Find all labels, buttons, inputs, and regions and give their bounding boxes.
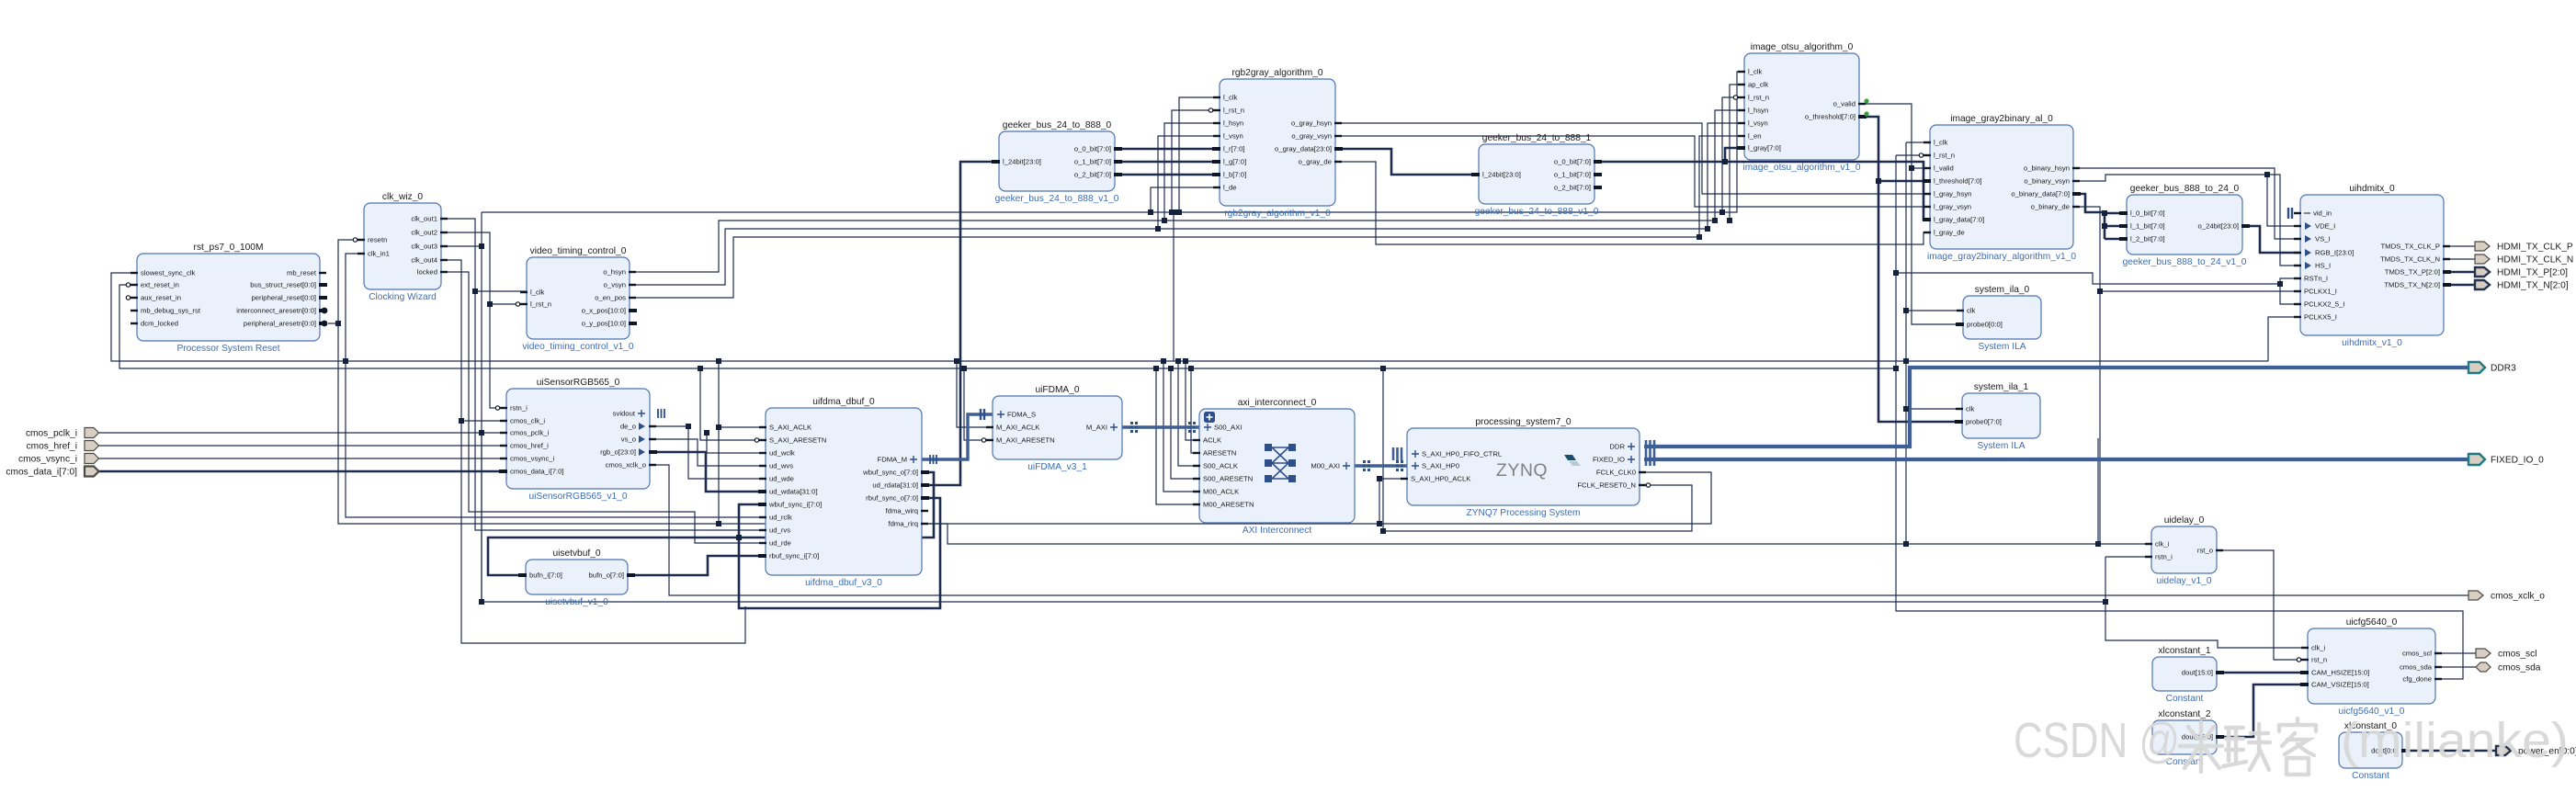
block uisetvbuf_0: [518, 549, 635, 607]
wire: RSTn/PCLKX2_5 net y=309: [1896, 273, 2280, 284]
svg-text:S_AXI_HP0_ACLK: S_AXI_HP0_ACLK: [1411, 475, 1471, 483]
wire: bufn_o to rbuf_sync_i: [628, 556, 766, 575]
svg-text:S_AXI_HP0_FIFO_CTRL: S_AXI_HP0_FIFO_CTRL: [1422, 450, 1503, 458]
svg-text:l_de: l_de: [1223, 184, 1237, 192]
wire: axi M00_ARESETN riser: [1156, 368, 1199, 504]
svg-text:l_clk: l_clk: [530, 289, 545, 297]
wire: PCLKX1 line: [2100, 290, 2300, 292]
external output port HDMI_TX_CLK_P: [2475, 242, 2490, 251]
svg-text:AXI Interconnect: AXI Interconnect: [1243, 526, 1311, 536]
svg-text:l_threshold[7:0]: l_threshold[7:0]: [1934, 177, 1982, 186]
svg-text:DDR3: DDR3: [2491, 364, 2516, 374]
svg-text:l_rst_n: l_rst_n: [1223, 107, 1244, 115]
wire: o_binary_vsyn to HS_I: [2072, 175, 2300, 266]
svg-text:axi_interconnect_0: axi_interconnect_0: [1238, 398, 1317, 408]
wire: geeker0 o_2_bit to l_b: [1115, 174, 1220, 176]
svg-text:clk_i: clk_i: [2155, 540, 2170, 549]
svg-text:rbuf_sync_i[7:0]: rbuf_sync_i[7:0]: [769, 552, 819, 560]
wire: geeker0 o_0_bit to l_r: [1115, 148, 1220, 151]
wire: peripheral_aresetn to resetn: [328, 240, 364, 323]
svg-text:dcm_locked: dcm_locked: [141, 320, 178, 328]
wire: CAM_VSIZE bus: [2217, 685, 2308, 737]
svg-text:peripheral_aresetn[0:0]: peripheral_aresetn[0:0]: [244, 320, 316, 328]
svg-text:S00_ARESETN: S00_ARESETN: [1203, 475, 1253, 483]
svg-text:mb_reset: mb_reset: [287, 269, 317, 277]
wire: CAM_HSIZE bus: [2217, 672, 2308, 674]
svg-text:cmos_sda: cmos_sda: [2400, 663, 2433, 672]
svg-text:l_vsyn: l_vsyn: [1223, 132, 1243, 141]
svg-text:System ILA: System ILA: [1978, 342, 2026, 352]
svg-text:cfg_done: cfg_done: [2402, 675, 2432, 684]
svg-text:geeker_bus_888_to_24_0: geeker_bus_888_to_24_0: [2130, 184, 2240, 194]
svg-text:o_x_pos[10:0]: o_x_pos[10:0]: [582, 307, 626, 315]
wire: cmos_xclk_o net y=648: [650, 465, 2468, 595]
svg-text:ZYNQ7 Processing System: ZYNQ7 Processing System: [1467, 508, 1581, 518]
svg-text:l_gray_data[7:0]: l_gray_data[7:0]: [1934, 216, 1984, 224]
svg-text:processing_system7_0: processing_system7_0: [1475, 417, 1572, 427]
wire: clk_out2 to l_rst_n and rstn_i: [441, 232, 527, 304]
wire: PCLKX5 from clock trunk: [2268, 317, 2300, 361]
external output port HDMI_TX_P[2:0]: [2475, 267, 2490, 277]
wire: right reset vertical x=2063 down to cfg_done return: [1896, 154, 1930, 156]
external output port power_en[0:0]: [2496, 746, 2511, 755]
svg-text:uifdma_dbuf_v3_0: uifdma_dbuf_v3_0: [805, 578, 882, 588]
svg-text:ap_clk: ap_clk: [1748, 81, 1768, 89]
wire: o_gray_hsyn to l_gray_hsyn: [1335, 123, 1930, 194]
svg-text:o_1_bit[7:0]: o_1_bit[7:0]: [1554, 171, 1591, 179]
svg-text:slowest_sync_clk: slowest_sync_clk: [141, 269, 196, 277]
svg-text:ext_reset_in: ext_reset_in: [141, 281, 179, 289]
svg-text:ud_wclk: ud_wclk: [769, 449, 795, 458]
svg-text:o_gray_hsyn: o_gray_hsyn: [1291, 119, 1332, 128]
svg-text:aux_reset_in: aux_reset_in: [141, 294, 181, 302]
svg-text:o_valid: o_valid: [1833, 100, 1855, 108]
svg-text:o_binary_hsyn: o_binary_hsyn: [2024, 164, 2070, 173]
svg-text:clk_in1: clk_in1: [368, 250, 390, 258]
svg-text:Constant: Constant: [2352, 771, 2389, 781]
svg-text:o_2_bit[7:0]: o_2_bit[7:0]: [1554, 184, 1591, 192]
external output port HDMI_TX_CLK_N: [2475, 255, 2490, 264]
wire: DDR interface bus: [1644, 368, 2468, 447]
svg-text:image_gray2binary_al_0: image_gray2binary_al_0: [1950, 114, 2053, 124]
svg-text:l_valid: l_valid: [1934, 164, 1954, 173]
svg-text:l_2_bit[7:0]: l_2_bit[7:0]: [2130, 235, 2165, 243]
svg-text:M00_AXI: M00_AXI: [1311, 462, 1340, 470]
svg-text:PCLKX2_5_I: PCLKX2_5_I: [2304, 300, 2344, 309]
block geeker_bus_24_to_888_1: [1471, 133, 1602, 217]
svg-text:dout[15:0]: dout[15:0]: [2182, 669, 2213, 677]
block uicfg5640_0: [2297, 617, 2442, 717]
svg-text:resetn: resetn: [368, 236, 387, 244]
svg-text:interconnect_aresetn[0:0]: interconnect_aresetn[0:0]: [236, 307, 316, 315]
wire: rgb2gray l_vsyn riser: [1158, 136, 1220, 229]
svg-text:ud_rvs: ud_rvs: [769, 526, 790, 535]
wire: otsu o_threshold bus to l_threshold and ila1 probe: [1859, 117, 1962, 422]
svg-text:(milianke): (milianke): [2341, 713, 2569, 768]
svg-text:o_gray_vsyn: o_gray_vsyn: [1291, 132, 1332, 141]
external input port cmos_pclk_i: [85, 428, 99, 438]
external output port cmos_scl: [2476, 649, 2491, 658]
svg-text:system_ila_1: system_ila_1: [1974, 382, 2029, 392]
svg-text:locked: locked: [417, 268, 437, 277]
wire: video timing o_vsyn net: [630, 123, 1744, 285]
svg-text:l_rst_n: l_rst_n: [1748, 94, 1769, 102]
svg-text:clk_wiz_0: clk_wiz_0: [382, 192, 423, 202]
svg-text:o_vsyn: o_vsyn: [604, 281, 626, 289]
wire: cmos_pclk_i net: [97, 432, 506, 434]
wire: cfg_done out: [2435, 678, 2444, 680]
svg-text:ARESETN: ARESETN: [1203, 449, 1236, 458]
svg-text:l_clk: l_clk: [1934, 139, 1948, 147]
block image_gray2binary_al_0: [1919, 114, 2081, 262]
block geeker_bus_24_to_888_0: [992, 120, 1122, 204]
wire: rgb2gray l_hsyn riser: [1164, 123, 1220, 221]
external bidir port cmos_sda: [2476, 662, 2491, 672]
svg-text:l_gray_hsyn: l_gray_hsyn: [1934, 190, 1971, 198]
svg-text:DDR: DDR: [1609, 443, 1625, 451]
external output port HDMI_TX_N[2:0]: [2475, 280, 2490, 289]
block image_otsu_algorithm_0: [1733, 42, 1867, 173]
wire: fdma_rirq to y=592 line: [922, 524, 2151, 544]
block processing_system7_0 (ZYNQ): [1393, 417, 1654, 518]
svg-text:fdma_rirq: fdma_rirq: [889, 520, 918, 528]
svg-text:rst_o: rst_o: [2197, 547, 2213, 555]
svg-text:geeker_bus_24_to_888_0: geeker_bus_24_to_888_0: [1003, 120, 1112, 130]
svg-text:l_hsyn: l_hsyn: [1748, 107, 1768, 115]
svg-text:l_clk: l_clk: [1748, 68, 1763, 76]
wire: rgb2gray l_clk riser: [1179, 97, 1220, 212]
svg-text:TMDS_TX_CLK_N: TMDS_TX_CLK_N: [2380, 255, 2440, 264]
svg-text:mb_debug_sys_rst: mb_debug_sys_rst: [141, 307, 201, 315]
svg-text:o_threshold[7:0]: o_threshold[7:0]: [1805, 113, 1855, 121]
svg-text:cmos_data_i[7:0]: cmos_data_i[7:0]: [6, 468, 77, 478]
block system_ila_1: [1955, 382, 2040, 451]
wire: de_o to ud_wde: [650, 426, 766, 479]
wire: cmos_vsync_i: [97, 458, 506, 459]
svg-text:uidelay_v1_0: uidelay_v1_0: [2156, 576, 2211, 586]
wire: axi ACLK riser: [1186, 361, 1199, 440]
wire: o_gray_data bus to geeker1: [1335, 149, 1479, 175]
svg-text:o_2_bit[7:0]: o_2_bit[7:0]: [1074, 171, 1111, 179]
svg-text:uifdma_dbuf_0: uifdma_dbuf_0: [812, 397, 875, 407]
wire: clk_out1 to l_clk and ud_rvs: [441, 219, 527, 291]
wire: M_AXI_ACLK riser: [957, 361, 993, 427]
svg-text:TMDS_TX_CLK_P: TMDS_TX_CLK_P: [2380, 243, 2440, 251]
svg-text:probe0[0:0]: probe0[0:0]: [1967, 321, 2003, 329]
external interface port FIXED_IO_0: [2468, 454, 2485, 465]
block rst_ps7_0_100M (Processor System Reset): [126, 243, 327, 354]
block uihdmitx_0: [2288, 184, 2451, 348]
svg-text:o_y_pos[10:0]: o_y_pos[10:0]: [582, 320, 626, 328]
svg-text:geeker_bus_888_to_24_v1_0: geeker_bus_888_to_24_v1_0: [2123, 257, 2247, 267]
wire: otsu o_valid to l_valid and ila0 probe: [1859, 104, 1963, 324]
CSDN watermark text: [2014, 713, 2569, 768]
svg-text:FIXED_IO: FIXED_IO: [1593, 456, 1625, 464]
svg-text:ud_rdata[31:0]: ud_rdata[31:0]: [872, 481, 918, 490]
svg-text:M00_ACLK: M00_ACLK: [1203, 488, 1240, 496]
svg-text:o_binary_data[7:0]: o_binary_data[7:0]: [2011, 190, 2070, 198]
svg-text:FCLK_RESET0_N: FCLK_RESET0_N: [1577, 481, 1636, 490]
block xlconstant_1: [2152, 646, 2224, 704]
svg-text:RSTn_I: RSTn_I: [2304, 275, 2328, 283]
wire: FCLK_CLK0 return loop: [1379, 472, 1711, 524]
svg-text:l_24bit[23:0]: l_24bit[23:0]: [1003, 158, 1041, 166]
block axi_interconnect_0: [1188, 398, 1370, 536]
svg-text:l_clk: l_clk: [1223, 94, 1238, 102]
svg-text:video_timing_control_0: video_timing_control_0: [530, 246, 627, 256]
svg-text:uisetvbuf_0: uisetvbuf_0: [552, 549, 600, 559]
wire: rgb_o bus to ud_wdata: [650, 452, 766, 492]
svg-text:VS_I: VS_I: [2315, 235, 2331, 243]
svg-text:o_en_pos: o_en_pos: [595, 294, 626, 302]
block xlconstant_0: [2339, 721, 2410, 781]
svg-text:l_gray_vsyn: l_gray_vsyn: [1934, 203, 1971, 211]
svg-text:Constant: Constant: [2166, 694, 2204, 704]
svg-text:cmos_href_i: cmos_href_i: [510, 442, 549, 450]
wire: video timing o_hsyn net: [630, 110, 1744, 272]
block xlconstant_2: [2152, 709, 2224, 767]
wire: right clock vertical x=2074: [1905, 142, 1907, 544]
svg-text:l_hsyn: l_hsyn: [1223, 119, 1243, 128]
wire: riser 231 to clk trunk: [1173, 212, 1175, 361]
svg-text:uiSensorRGB565_0: uiSensorRGB565_0: [537, 378, 620, 388]
svg-text:o_1_bit[7:0]: o_1_bit[7:0]: [1074, 158, 1111, 166]
block uiFDMA_0: [981, 385, 1138, 472]
wire: power_en bus: [2402, 750, 2496, 752]
svg-text:image_gray2binary_algorithm_v1: image_gray2binary_algorithm_v1_0: [1927, 252, 2076, 262]
wire: axi ARESETN riser: [1191, 368, 1199, 453]
svg-text:l_0_bit[7:0]: l_0_bit[7:0]: [2130, 209, 2165, 218]
wire: video timing o_en_pos net: [630, 136, 1744, 298]
wire: o_binary_data bus to geeker888 inputs: [2072, 194, 2105, 212]
wire: o_gray_vsyn to l_gray_vsyn: [1335, 136, 1930, 207]
svg-text:fdma_wirq: fdma_wirq: [886, 507, 918, 515]
svg-text:cmos_vsync_i: cmos_vsync_i: [510, 455, 555, 463]
svg-text:cmos_scl: cmos_scl: [2498, 650, 2536, 660]
svg-text:uihdmitx_v1_0: uihdmitx_v1_0: [2342, 338, 2402, 348]
wire: uifdma S_AXI_ACLK riser: [719, 361, 766, 427]
external input port cmos_href_i: [85, 441, 99, 451]
svg-text:S_AXI_HP0: S_AXI_HP0: [1422, 462, 1459, 470]
svg-text:vs_o: vs_o: [621, 436, 636, 444]
svg-text:uicfg5640_0: uicfg5640_0: [2346, 617, 2398, 628]
wire: axi M00_ACLK riser: [1163, 361, 1199, 492]
svg-text:S00_ACLK: S00_ACLK: [1203, 462, 1239, 470]
svg-text:l_rst_n: l_rst_n: [530, 300, 551, 309]
svg-text:o_gray_de: o_gray_de: [1299, 158, 1332, 166]
svg-text:S_AXI_ACLK: S_AXI_ACLK: [769, 424, 812, 432]
svg-text:rst_ps7_0_100M: rst_ps7_0_100M: [194, 243, 264, 253]
wire: S_AXI_ACLK trunk down to clock return: [718, 427, 720, 524]
svg-text:FDMA_S: FDMA_S: [1007, 411, 1036, 419]
external input port cmos_data_i[7:0]: [85, 467, 99, 477]
wire: ud_rdata bus to geeker0 l_24bit: [922, 162, 999, 485]
wire: M_AXI_ARESETN riser: [964, 368, 993, 440]
svg-text:cmos_xclk_o: cmos_xclk_o: [606, 461, 646, 470]
svg-text:ud_rde: ud_rde: [769, 539, 791, 548]
block clk_wiz_0 (Clocking Wizard): [353, 192, 448, 302]
wire: FCLK reset far vertical: [1382, 368, 1384, 531]
wire: rst_o to uicfg rst_n: [2217, 550, 2308, 660]
svg-text:xlconstant_1: xlconstant_1: [2158, 646, 2211, 656]
svg-text:HS_I: HS_I: [2315, 262, 2331, 270]
svg-text:FDMA_M: FDMA_M: [878, 456, 907, 464]
wire: geeker1 o_0_bit to otsu l_gray and g2b l_gray_data: [1594, 162, 1930, 220]
svg-text:l_24bit[23:0]: l_24bit[23:0]: [1482, 171, 1521, 179]
wire: reset trunk y=401: [119, 285, 1896, 368]
wire: wbuf_sync_o to bufn_i: [488, 472, 934, 575]
svg-text:clk_out2: clk_out2: [411, 229, 437, 237]
junction dots: [343, 358, 348, 364]
wire: uifdma S_AXI_ARESETN riser: [700, 368, 766, 440]
wire: clk_out4 to cmos_clk_i and setvbuf loop: [441, 260, 506, 421]
wire: FCLK clock trunk y=393: [111, 273, 2268, 361]
svg-text:l_gray_de: l_gray_de: [1934, 229, 1965, 237]
svg-text:uiFDMA_0: uiFDMA_0: [1035, 385, 1079, 395]
svg-text:bufn_i[7:0]: bufn_i[7:0]: [529, 571, 562, 580]
svg-text:ud_rclk: ud_rclk: [769, 514, 792, 522]
svg-text:FIXED_IO_0: FIXED_IO_0: [2491, 456, 2544, 466]
svg-text:FCLK_CLK0: FCLK_CLK0: [1596, 469, 1636, 477]
svg-text:cmos_scl: cmos_scl: [2402, 650, 2432, 658]
svg-text:ud_wdata[31:0]: ud_wdata[31:0]: [769, 488, 818, 496]
svg-text:HDMI_TX_P[2:0]: HDMI_TX_P[2:0]: [2497, 268, 2568, 278]
wire: axi S00_ACLK riser: [1178, 361, 1199, 466]
wire: uidelay rstn vertical: [2097, 438, 2099, 544]
external input port cmos_vsync_i: [85, 454, 99, 464]
svg-text:cmos_href_i: cmos_href_i: [27, 442, 78, 452]
svg-text:clk: clk: [1966, 405, 1975, 413]
svg-text:rgb2gray_algorithm_0: rgb2gray_algorithm_0: [1231, 68, 1322, 78]
svg-text:S_AXI_ARESETN: S_AXI_ARESETN: [769, 436, 826, 445]
wire: FCLK_RESET0_N return loop: [1383, 485, 1692, 531]
external output port cmos_xclk_o: [2468, 591, 2483, 600]
svg-text:cmos_pclk_i: cmos_pclk_i: [510, 429, 550, 437]
wire: cmos_scl out: [2435, 652, 2476, 654]
svg-text:M_AXI_ACLK: M_AXI_ACLK: [996, 424, 1040, 432]
block geeker_bus_888_to_24_0: [2119, 184, 2250, 267]
wire: clk_in1 riser: [346, 254, 364, 361]
wire: o_gray_de to l_gray_de: [1335, 162, 1930, 244]
svg-text:rstn_i: rstn_i: [2155, 553, 2173, 561]
wire: o_binary_hsyn to VS_I: [2072, 168, 2300, 239]
block video_timing_control_0: [516, 246, 637, 352]
svg-text:o_gray_data[23:0]: o_gray_data[23:0]: [1275, 145, 1332, 153]
svg-text:l_b[7:0]: l_b[7:0]: [1223, 171, 1246, 179]
svg-text:uidelay_0: uidelay_0: [2164, 515, 2205, 526]
wire: rgb2gray l_de riser: [1151, 187, 1220, 212]
svg-text:VDE_I: VDE_I: [2315, 222, 2335, 231]
svg-text:image_otsu_algorithm_v1_0: image_otsu_algorithm_v1_0: [1743, 163, 1861, 173]
wire: locked trunk to ud_rde: [441, 272, 766, 543]
wire: TMDS outputs: [2444, 245, 2475, 247]
svg-text:o_binary_vsyn: o_binary_vsyn: [2024, 177, 2070, 186]
wire: otsu ap_clk riser: [1730, 85, 1744, 221]
svg-text:RGB_I[23:0]: RGB_I[23:0]: [2315, 249, 2354, 257]
block uidelay_0: [2145, 515, 2223, 586]
svg-text:Clocking Wizard: Clocking Wizard: [369, 292, 437, 302]
svg-text:o_24bit[23:0]: o_24bit[23:0]: [2198, 222, 2239, 231]
svg-text:bufn_o[7:0]: bufn_o[7:0]: [589, 571, 624, 580]
svg-text:l_1_bit[7:0]: l_1_bit[7:0]: [2130, 222, 2165, 231]
svg-text:rstn_i: rstn_i: [510, 404, 528, 413]
wire: axi S00_ARESETN riser: [1171, 368, 1199, 479]
wire: o_24bit bus to RGB_I: [2242, 226, 2300, 253]
wire: AXI bus FDMA_M to FDMA_S: [922, 414, 993, 459]
external interface port DDR3: [2468, 362, 2485, 373]
block rgb2gray_algorithm_0: [1209, 68, 1343, 219]
svg-text:peripheral_reset[0:0]: peripheral_reset[0:0]: [251, 294, 316, 302]
svg-text:uiSensorRGB565_v1_0: uiSensorRGB565_v1_0: [528, 492, 627, 502]
svg-text:ZYNQ: ZYNQ: [1496, 460, 1548, 481]
svg-text:image_otsu_algorithm_0: image_otsu_algorithm_0: [1751, 42, 1854, 52]
svg-text:clk_out1: clk_out1: [411, 215, 437, 223]
svg-text:l_g[7:0]: l_g[7:0]: [1223, 158, 1246, 166]
svg-text:Processor System Reset: Processor System Reset: [176, 344, 279, 354]
svg-text:wbuf_sync_o[7:0]: wbuf_sync_o[7:0]: [862, 469, 918, 477]
svg-text:TMDS_TX_N[2:0]: TMDS_TX_N[2:0]: [2384, 281, 2440, 289]
wire: clk_out3 / pixel clock trunk with top line y=231: [441, 245, 482, 247]
wire: ud_wclk tap on pclk: [707, 433, 766, 453]
svg-text:clk: clk: [1967, 307, 1976, 315]
svg-text:svidout: svidout: [613, 410, 636, 418]
block uifdma_dbuf_0: [755, 397, 936, 588]
wire: aresetn trunk down to clock return line: [338, 323, 1379, 524]
svg-text:cmos_xclk_o: cmos_xclk_o: [2491, 592, 2545, 602]
wire: FIXED_IO interface bus: [1644, 458, 2468, 461]
svg-text:ud_wvs: ud_wvs: [769, 462, 793, 470]
block uiSensorRGB565_0: [495, 378, 664, 502]
wire: geeker0 o_1_bit to l_g: [1115, 161, 1220, 164]
wire: rbuf_sync_o to wbuf_sync_i: [739, 498, 940, 608]
wire: cmos_data_i bus: [97, 470, 506, 473]
svg-text:M_AXI_ARESETN: M_AXI_ARESETN: [996, 436, 1055, 445]
svg-text:HDMI_TX_CLK_P: HDMI_TX_CLK_P: [2497, 243, 2573, 253]
svg-text:o_hsyn: o_hsyn: [603, 268, 626, 277]
svg-text:de_o: de_o: [620, 423, 636, 431]
wire: cmos_href_i: [97, 445, 506, 447]
svg-text:rgb2gray_algorithm_v1_0: rgb2gray_algorithm_v1_0: [1224, 209, 1331, 219]
svg-text:rbuf_sync_o[7:0]: rbuf_sync_o[7:0]: [866, 494, 918, 503]
wire: rgb2gray l_rst_n riser: [1172, 110, 1220, 212]
svg-text:o_0_bit[7:0]: o_0_bit[7:0]: [1554, 158, 1591, 166]
svg-text:geeker_bus_24_to_888_1: geeker_bus_24_to_888_1: [1482, 133, 1592, 143]
svg-text:System ILA: System ILA: [1977, 441, 2025, 451]
svg-text:CSDN @: CSDN @: [2014, 713, 2180, 768]
svg-text:HDMI_TX_N[2:0]: HDMI_TX_N[2:0]: [2497, 281, 2569, 291]
wire: otsu l_rst_n riser: [1722, 97, 1744, 212]
svg-text:CAM_HSIZE[15:0]: CAM_HSIZE[15:0]: [2311, 669, 2369, 677]
svg-text:l_rst_n: l_rst_n: [1934, 152, 1955, 160]
svg-text:PCLKX5_I: PCLKX5_I: [2304, 313, 2337, 322]
svg-text:probe0[7:0]: probe0[7:0]: [1966, 418, 2002, 426]
svg-text:clk_i: clk_i: [2311, 644, 2326, 652]
svg-text:M00_ARESETN: M00_ARESETN: [1203, 501, 1254, 509]
svg-text:bus_struct_reset[0:0]: bus_struct_reset[0:0]: [250, 281, 316, 289]
svg-text:M_AXI: M_AXI: [1086, 424, 1107, 432]
svg-text:rst_n: rst_n: [2311, 656, 2327, 664]
svg-text:HDMI_TX_CLK_N: HDMI_TX_CLK_N: [2497, 255, 2573, 266]
svg-text:geeker_bus_24_to_888_v1_0: geeker_bus_24_to_888_v1_0: [995, 194, 1119, 204]
svg-text:o_0_bit[7:0]: o_0_bit[7:0]: [1074, 145, 1111, 153]
svg-text:l_r[7:0]: l_r[7:0]: [1223, 145, 1245, 153]
svg-text:wbuf_sync_i[7:0]: wbuf_sync_i[7:0]: [768, 501, 822, 509]
svg-text:l_en: l_en: [1748, 132, 1762, 141]
svg-text:cmos_clk_i: cmos_clk_i: [510, 417, 545, 425]
svg-text:l_vsyn: l_vsyn: [1748, 119, 1768, 128]
svg-text:uiFDMA_v3_1: uiFDMA_v3_1: [1027, 462, 1087, 472]
svg-text:vid_in: vid_in: [2313, 209, 2332, 218]
